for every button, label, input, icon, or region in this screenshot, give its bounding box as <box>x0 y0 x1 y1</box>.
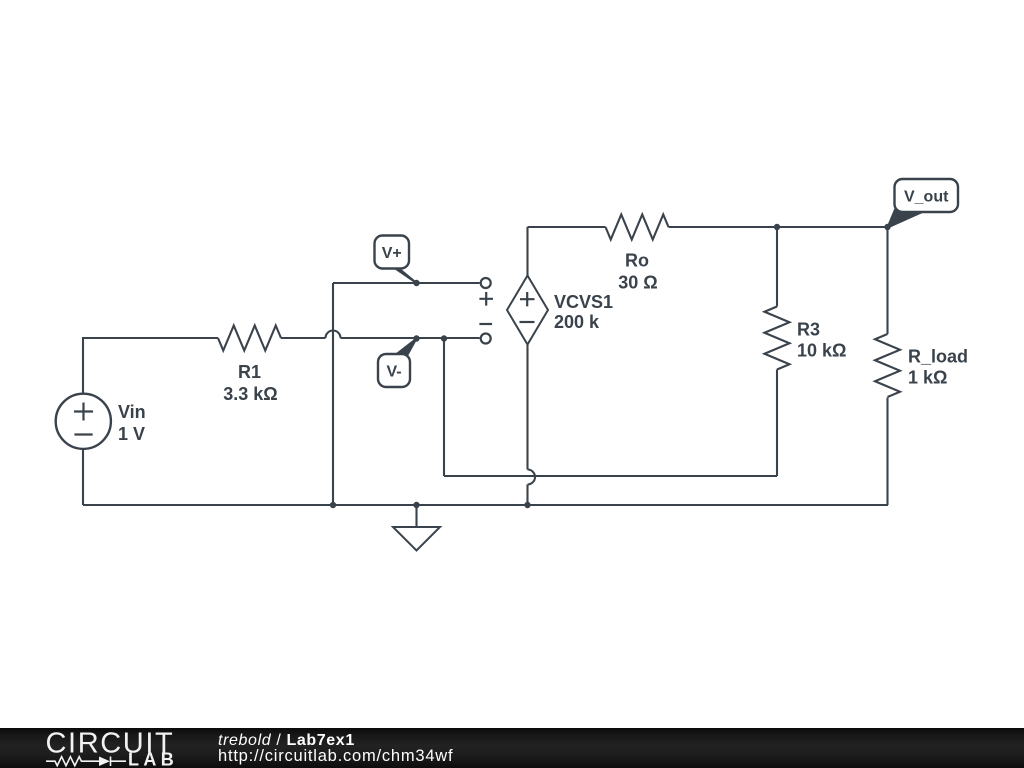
wire VCVS output top <box>526 227 528 276</box>
flag V- pointer <box>387 339 417 362</box>
node rail x333 dot <box>330 502 336 508</box>
ground triangle <box>393 527 440 551</box>
wire hop of VCVS bottom over feedback wire <box>528 470 536 485</box>
wire R3 bottom lead <box>776 370 778 477</box>
svg-text:V_out: V_out <box>904 189 949 206</box>
op-amp VCVS1 diamond <box>507 276 548 345</box>
VCVS1 minus sign <box>520 321 535 323</box>
VCVS input terminal minus circle <box>481 334 491 344</box>
svg-text:Vin: Vin <box>118 402 146 422</box>
wire Ro right to V_out <box>669 226 888 228</box>
node feedback branch dot <box>441 335 447 341</box>
flag V+ pointer <box>383 260 417 283</box>
svg-text:200 k: 200 k <box>554 312 600 332</box>
VCVS input terminal plus circle <box>481 278 491 288</box>
wire R_load top lead <box>886 227 888 334</box>
ground stub <box>415 505 417 527</box>
wire Vin bottom <box>82 449 84 505</box>
flag V+ box <box>375 236 410 269</box>
Vin minus sign <box>74 433 92 435</box>
svg-text:3.3 kΩ: 3.3 kΩ <box>223 384 277 404</box>
resistor R3 <box>765 307 790 370</box>
node V- junction dot <box>413 335 419 341</box>
flag V_out box <box>895 179 959 212</box>
resistor R_load <box>875 334 900 397</box>
svg-text:30 Ω: 30 Ω <box>618 273 657 293</box>
node ground dot <box>413 502 419 508</box>
wire feedback horizontal y=476 <box>444 475 777 477</box>
node R3 top dot <box>774 224 780 230</box>
svg-text:1 kΩ: 1 kΩ <box>908 368 947 388</box>
logo resistor-diode squiggle <box>46 757 99 766</box>
wire VCVS bottom to rail <box>526 485 528 506</box>
node V_out dot <box>884 224 890 230</box>
wire top rail y=227 <box>528 226 606 228</box>
footer bar <box>0 728 1024 768</box>
VCVS1 plus sign <box>520 292 535 306</box>
terminal plus sign <box>479 292 493 306</box>
wire V+ vertical (x=333 from V+ line to ground rail) <box>332 283 334 505</box>
wire ground rail <box>83 504 888 506</box>
wire hop to VCVS minus terminal <box>341 337 480 339</box>
svg-text:VCVS1: VCVS1 <box>554 292 613 312</box>
wire R1 right lead to hop <box>281 337 326 339</box>
node VCVS bottom rail dot <box>524 502 530 508</box>
wire hop over node at x=333 <box>326 331 341 338</box>
terminal minus sign <box>479 323 492 325</box>
wire R3 top lead <box>776 227 778 307</box>
wire VCVS output bottom <box>526 345 528 470</box>
svg-text:Ro: Ro <box>625 251 649 271</box>
flag V_out pointer <box>888 209 924 228</box>
resistor R1 <box>218 326 281 351</box>
node V+ junction dot <box>413 280 419 286</box>
svg-text:1 V: 1 V <box>118 424 145 444</box>
svg-text:V-: V- <box>386 364 401 381</box>
wire V- branch vertical x=444 <box>443 338 445 476</box>
svg-text:http://circuitlab.com/chm34wf: http://circuitlab.com/chm34wf <box>218 747 453 765</box>
svg-text:R3: R3 <box>797 320 820 340</box>
flag V- box <box>378 354 410 387</box>
svg-text:R1: R1 <box>238 362 261 382</box>
svg-text:LAB: LAB <box>128 750 178 768</box>
voltage source Vin <box>56 394 111 449</box>
svg-text:R_load: R_load <box>908 347 968 367</box>
wire V+ horizontal to VCVS plus terminal <box>333 282 480 284</box>
wire Vin top to R1 <box>83 338 218 394</box>
resistor Ro <box>606 215 669 240</box>
svg-text:10 kΩ: 10 kΩ <box>797 341 846 361</box>
svg-text:V+: V+ <box>382 245 402 262</box>
wire R_load bottom lead <box>886 398 888 506</box>
Vin plus sign <box>74 403 93 421</box>
